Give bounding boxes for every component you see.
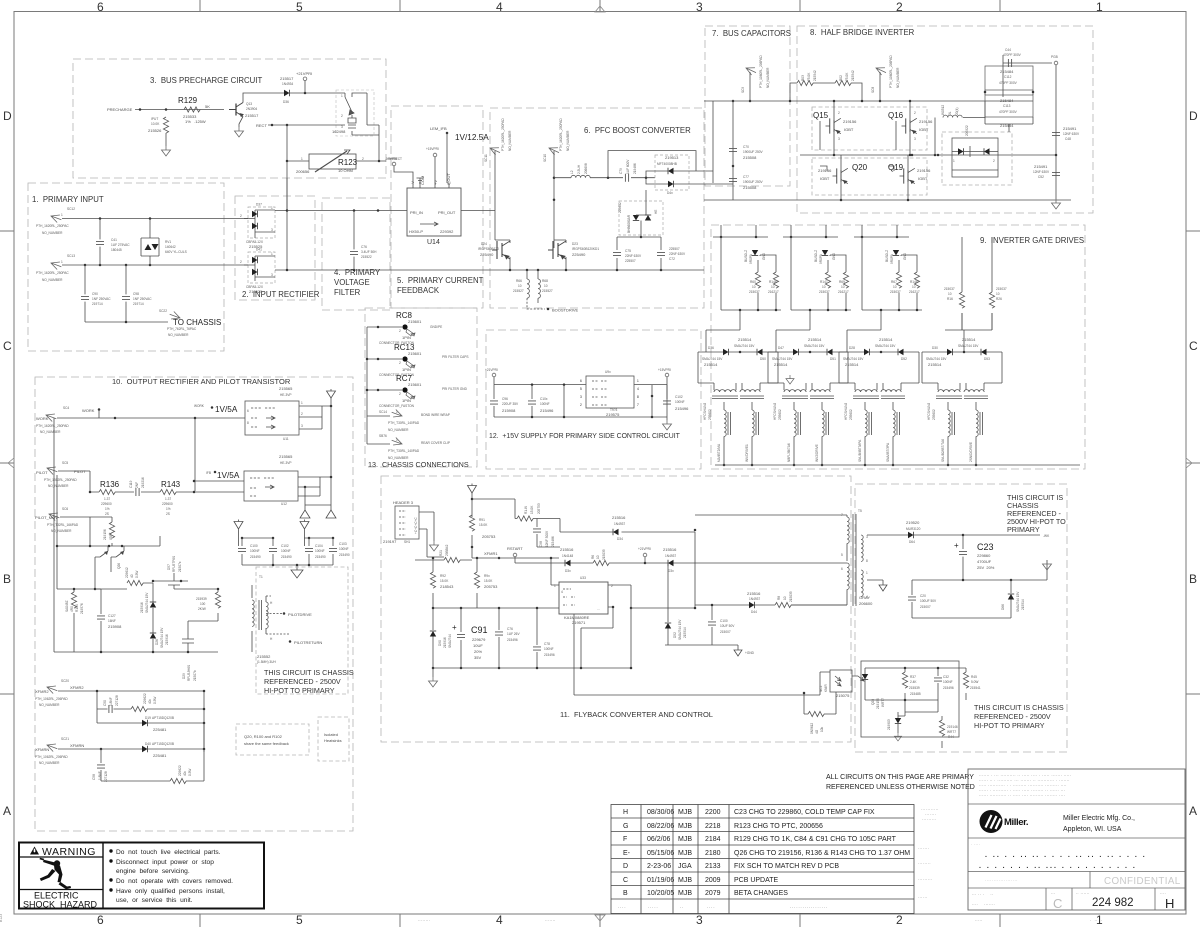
svg-text:6: 6 (841, 567, 843, 571)
svg-text:2: 2 (896, 0, 903, 14)
inductor W0512 (935, 101, 985, 155)
svg-text:IPUT: IPUT (151, 117, 158, 121)
svg-text:215527: 215527 (542, 289, 553, 293)
svg-text:640V YL-CULS: 640V YL-CULS (165, 250, 187, 254)
revision table (611, 805, 939, 914)
IGBT Q24 (492, 241, 510, 259)
svg-text:229679: 229679 (472, 637, 486, 642)
resistor R93 (476, 558, 478, 608)
svg-text:2NF: 2NF (135, 482, 139, 488)
wire header (419, 512, 444, 557)
svg-text:2009: 2009 (705, 877, 721, 884)
svg-text:ALL CIRCUITS ON THIS PAGE ARE: ALL CIRCUITS ON THIS PAGE ARE PRIMARY (826, 774, 974, 781)
svg-text:D66: D66 (1001, 604, 1005, 610)
svg-text:3L: 3L (948, 111, 952, 115)
svg-text:1PIN: 1PIN (402, 367, 411, 372)
svg-text:216217: 216217 (838, 290, 849, 294)
svg-text:INV2/DRIVE: INV2/DRIVE (815, 444, 819, 462)
zener pair 215514 SMAJ744 (768, 352, 848, 370)
svg-text:100NF: 100NF (315, 549, 325, 553)
svg-text:8: 8 (637, 395, 639, 399)
svg-text:219216: 219216 (141, 477, 145, 488)
svg-text:...... ........... .. ..... ..: ...... ........... .. ..... .... .......… (979, 793, 1065, 797)
svg-text:215496: 215496 (943, 686, 954, 690)
svg-text:SMAJ744 15V: SMAJ744 15V (160, 627, 164, 648)
svg-text:SC11: SC11 (484, 154, 488, 162)
svg-text:JGA: JGA (678, 863, 692, 870)
svg-text:REFERENCED - 2500V: REFERENCED - 2500V (264, 677, 341, 686)
svg-text:3: 3 (271, 228, 273, 232)
svg-text:8: 8 (247, 421, 249, 425)
svg-text:12. +15V SUPPLY FOR PRIMARY S: 12. +15V SUPPLY FOR PRIMARY SIDE CONTROL… (489, 433, 681, 440)
svg-text:215552: 215552 (257, 654, 271, 659)
svg-text:C127: C127 (108, 614, 116, 618)
phase node wires (800, 101, 1056, 200)
svg-text:6: 6 (97, 913, 104, 927)
svg-text:.... .......: .... ....... (972, 902, 995, 906)
svg-text:D37: D37 (256, 203, 262, 207)
svg-text:10k: 10k (820, 726, 824, 732)
shock hazard figure (40, 858, 72, 889)
svg-text:4: 4 (496, 913, 503, 927)
wire L2 (62, 264, 248, 266)
svg-text:215939: 215939 (196, 597, 207, 601)
svg-text:SC9: SC9 (741, 87, 745, 93)
svg-text:215514: 215514 (845, 362, 859, 367)
svg-text:R02: R02 (839, 75, 843, 81)
diode (958, 148, 964, 154)
svg-text:100NF: 100NF (281, 549, 291, 553)
svg-text:219520: 219520 (906, 520, 920, 525)
svg-text:RV1: RV1 (165, 240, 171, 244)
wires sensor2 out (298, 477, 331, 510)
wire collector (243, 93, 284, 103)
svg-text:215565: 215565 (279, 386, 293, 391)
dotted legal text (979, 773, 1072, 797)
svg-text:+15VPRI: +15VPRI (426, 147, 439, 151)
svg-text:1% .125W: 1% .125W (185, 119, 206, 124)
coupling transformer T2 (698, 370, 778, 383)
svg-text:PILOTRETURN: PILOTRETURN (294, 640, 322, 645)
svg-text:T1: T1 (259, 575, 263, 579)
svg-text:206922: 206922 (965, 125, 969, 136)
resistor R37 (904, 668, 906, 712)
svg-text:D36: D36 (708, 346, 714, 350)
svg-text:215539: 215539 (909, 686, 920, 690)
svg-text:Q26 CHG TO 219156, R136 & R143: Q26 CHG TO 219156, R136 & R143 CHG TO 1.… (734, 850, 910, 857)
svg-text:THIS CIRCUIT IS CHASSIS: THIS CIRCUIT IS CHASSIS (264, 668, 354, 677)
svg-text:.. ......: .. ...... (1076, 891, 1090, 895)
svg-text:12NF 630V: 12NF 630V (1033, 170, 1050, 174)
svg-text:1UF 600V: 1UF 600V (626, 159, 630, 174)
svg-text:D47: D47 (778, 346, 784, 350)
svg-text:215496: 215496 (507, 638, 518, 642)
svg-text:235602: 235602 (849, 409, 853, 420)
zener pair 215514 SMAJ744 (698, 352, 778, 370)
resistor R123 PTC 200656 (309, 150, 356, 172)
svg-text:215496: 215496 (540, 408, 554, 413)
resistor R92 (432, 558, 434, 608)
svg-text:2: 2 (240, 214, 242, 218)
capacitor C100 (241, 538, 243, 565)
svg-text:100NF: 100NF (339, 547, 349, 551)
svg-text:W0512: W0512 (941, 105, 945, 115)
svg-text:PTH_1062RL_206PAD: PTH_1062RL_206PAD (35, 755, 68, 759)
svg-text:R146: R146 (769, 280, 777, 284)
resistor R102 (101, 749, 204, 781)
wire (494, 151, 496, 240)
svg-text:.......: ....... (925, 812, 937, 816)
svg-text:215516: 215516 (612, 515, 626, 520)
svg-text:PTH_1620RL_250PAD: PTH_1620RL_250PAD (559, 118, 563, 151)
svg-text:BHB6080AR: BHB6080AR (627, 214, 631, 233)
svg-text:D51: D51 (830, 357, 836, 361)
svg-text:B: B (1189, 572, 1197, 586)
svg-text:D52: D52 (901, 357, 907, 361)
svg-text:D30: D30 (932, 346, 938, 350)
connector TO CHASSIS (168, 310, 181, 321)
node PILOTRETURN (289, 640, 292, 643)
svg-text:15.0K: 15.0K (440, 579, 449, 583)
svg-text:. . . . . . . .. ... . . . . .: . . . . . . . .. ... . . . . . . . . . . (979, 863, 1137, 870)
ground (786, 375, 794, 384)
svg-text:Miller Electric Mfg. Co.,: Miller Electric Mfg. Co., (1063, 815, 1135, 822)
rectifier module D37 (248, 207, 275, 238)
svg-text:2: 2 (362, 157, 364, 161)
svg-text:PCB UPDATE: PCB UPDATE (734, 877, 779, 884)
wire (713, 72, 750, 200)
svg-text:MJB: MJB (678, 836, 692, 843)
svg-text:1: 1 (61, 260, 63, 264)
svg-text:1UF 275VAC: 1UF 275VAC (111, 243, 130, 247)
svg-text:Q26: Q26 (117, 563, 121, 569)
svg-text:R16: R16 (947, 297, 953, 301)
svg-text:......: ...... (918, 895, 928, 899)
svg-text:HI-POT TO PRIMARY: HI-POT TO PRIMARY (974, 721, 1045, 730)
capacitor C98 (125, 265, 127, 322)
top rail (854, 225, 909, 237)
svg-text:10: 10 (752, 285, 756, 289)
capacitor C75 (616, 237, 618, 270)
diode D28 (893, 250, 899, 256)
svg-text:CONNECTOR_FASTON: CONNECTOR_FASTON (379, 404, 415, 408)
svg-text:4G: 4G (815, 729, 819, 734)
svg-text:3. BUS PRECHARGE CIRCUIT: 3. BUS PRECHARGE CIRCUIT (150, 76, 262, 85)
svg-text:FIX SCH TO MATCH REV D PCB: FIX SCH TO MATCH REV D PCB (734, 863, 839, 870)
svg-text:1V/5A: 1V/5A (215, 405, 238, 414)
svg-text:215508: 215508 (743, 155, 757, 160)
svg-text:215514: 215514 (928, 362, 942, 367)
bottom rail section 9 (715, 464, 1080, 466)
svg-text:215037: 215037 (749, 290, 760, 294)
svg-text:PRI_OUT: PRI_OUT (438, 210, 456, 215)
wire RECT (268, 124, 345, 126)
svg-text:100: 100 (200, 602, 206, 606)
svg-text:229612: 229612 (125, 567, 129, 578)
ground (235, 127, 244, 137)
svg-text:100NF: 100NF (943, 680, 953, 684)
svg-text:219513: 219513 (665, 155, 679, 160)
svg-text:R104: R104 (75, 604, 79, 612)
svg-text:1.37: 1.37 (104, 497, 110, 501)
svg-text:215037: 215037 (890, 290, 901, 294)
svg-text:...: ... (597, 607, 600, 611)
svg-text:219156: 219156 (843, 119, 857, 124)
capacitor C119 (136, 488, 139, 496)
svg-text:XFMRN: XFMRN (70, 743, 84, 748)
svg-text:HE-3VP: HE-3VP (280, 393, 292, 397)
svg-text:FEEDBACK: FEEDBACK (397, 286, 440, 295)
mosfet D29 (174, 589, 218, 652)
diode (633, 215, 639, 221)
svg-text:215514: 215514 (683, 627, 687, 638)
svg-text:10: 10 (912, 285, 916, 289)
wire opto (820, 672, 858, 676)
svg-text:PTH_T30RL_140PAD: PTH_T30RL_140PAD (388, 449, 420, 453)
junction (139, 108, 142, 111)
svg-text:1V/12.5A: 1V/12.5A (455, 133, 489, 142)
opto coupler NC2 (830, 670, 852, 692)
svg-text:+V: +V (433, 180, 438, 185)
capacitor module C112 (985, 66, 1033, 90)
wire (394, 166, 424, 188)
svg-text:Do not touch live electric: Do not touch live electrical parts. (116, 849, 221, 856)
svg-text:216217: 216217 (909, 290, 920, 294)
section 1 box: PRIMARY INPUT (28, 183, 224, 351)
capacitor C98 (537, 519, 560, 548)
svg-text:215037: 215037 (944, 287, 955, 291)
svg-text:2N3904: 2N3904 (246, 107, 257, 111)
warning bullets (109, 849, 233, 904)
svg-text:D3x: D3x (565, 569, 571, 573)
note above revision table (826, 774, 975, 791)
svg-text:225490: 225490 (480, 252, 494, 257)
svg-text:3: 3 (866, 535, 868, 539)
ground (894, 733, 901, 741)
svg-text:235602: 235602 (708, 409, 712, 420)
arrow up (234, 520, 243, 539)
chassis referenced sub box (256, 567, 348, 694)
svg-text:1N4937: 1N4937 (665, 554, 676, 558)
snubber module 225612 (619, 201, 663, 235)
arrow up (300, 520, 309, 539)
svg-text:215490: 215490 (339, 553, 350, 557)
svg-text:HFCSHUNJ: HFCSHUNJ (927, 402, 931, 420)
svg-text:215516: 215516 (747, 591, 761, 596)
svg-text:Q20, R100 and R102: Q20, R100 and R102 (244, 734, 283, 739)
svg-text:...........: ........... (921, 807, 939, 811)
svg-text:Q16: Q16 (888, 111, 904, 120)
varistor RV1 (141, 219, 159, 266)
svg-text:MJB: MJB (678, 809, 692, 816)
wire I_OUT (447, 133, 449, 188)
svg-text:BUS0LZ: BUS0LZ (885, 250, 889, 262)
svg-text:PTH_T30RL_140PAD: PTH_T30RL_140PAD (388, 421, 420, 425)
capacitor C96 (493, 385, 495, 417)
diode (984, 148, 990, 154)
svg-text:10: 10 (996, 292, 1000, 296)
svg-text:9. INVERTER GATE DRIVES: 9. INVERTER GATE DRIVES (980, 236, 1084, 245)
svg-text:A: A (1189, 804, 1197, 818)
svg-text:C: C (623, 877, 628, 884)
svg-text:1NF 250VAC: 1NF 250VAC (133, 297, 152, 301)
svg-text:NO_NUMBER: NO_NUMBER (42, 231, 63, 235)
svg-text:D44: D44 (751, 610, 757, 614)
rail (239, 538, 334, 546)
svg-text:R67: R67 (891, 280, 897, 284)
svg-text:PTH_1620RL_250PAD: PTH_1620RL_250PAD (501, 118, 505, 151)
diode (252, 211, 258, 217)
capacitor C32 (937, 668, 939, 700)
svg-text:........: ........ (418, 918, 430, 922)
wire (617, 190, 648, 237)
svg-text:215517: 215517 (245, 113, 259, 118)
svg-text:C20: C20 (920, 594, 926, 598)
svg-text:WRT7: WRT7 (947, 730, 956, 734)
svg-text:4: 4 (496, 0, 503, 14)
svg-text:215484: 215484 (1000, 69, 1014, 74)
svg-text:R92: R92 (440, 574, 446, 578)
svg-text:CONFIDENTIAL: CONFIDENTIAL (1104, 876, 1181, 887)
zener D90 SMAJ744 (432, 608, 434, 668)
svg-text:REFERENCED UNLESS OTHERWISE NO: REFERENCED UNLESS OTHERWISE NOTED (826, 784, 975, 791)
wire (356, 125, 386, 161)
svg-text:215517: 215517 (280, 76, 294, 81)
svg-text:NO_NUMBER: NO_NUMBER (48, 484, 69, 488)
svg-text:2: 2 (399, 361, 401, 365)
svg-text:.....: ..... (975, 918, 983, 922)
svg-text:2079: 2079 (705, 890, 721, 897)
svg-text:C: C (1189, 339, 1198, 353)
svg-text:215514: 215514 (774, 362, 788, 367)
svg-text:R129: R129 (178, 96, 198, 105)
svg-text:6. PFC BOOST CONVERTER: 6. PFC BOOST CONVERTER (584, 126, 691, 135)
ground small (734, 650, 742, 656)
svg-text:20%: 20% (474, 649, 482, 654)
connector XFMRN SC21 (46, 741, 59, 752)
svg-text:100NF: 100NF (544, 647, 554, 651)
svg-text:.......: ....... (545, 918, 556, 922)
diode (668, 168, 674, 174)
svg-text:4700UF: 4700UF (977, 559, 992, 564)
svg-text:.....: ..... (648, 904, 659, 909)
svg-text:3: 3 (580, 395, 582, 399)
diode D36 1N4934 (284, 90, 290, 96)
svg-text:D90: D90 (438, 640, 442, 646)
svg-text:05/15/06: 05/15/06 (647, 850, 674, 857)
svg-text:215490: 215490 (315, 555, 326, 559)
capacitor C100f (711, 605, 713, 645)
svg-text:20(4): 20(4) (955, 108, 959, 115)
svg-text:215916: 215916 (165, 634, 169, 645)
svg-text:15.0K: 15.0K (484, 579, 493, 583)
svg-text:12NF 300V: 12NF 300V (545, 530, 549, 547)
svg-text:C52: C52 (1038, 175, 1044, 179)
bottom rail (847, 237, 922, 352)
svg-text:E-: E- (623, 850, 631, 857)
winding R66 (526, 270, 528, 279)
zener D66 (1010, 580, 1012, 618)
svg-text:U14: U14 (427, 239, 440, 246)
svg-text:NO_NUMBER: NO_NUMBER (168, 333, 189, 337)
svg-text:5K: 5K (205, 104, 210, 109)
wire rectifier plus bus (275, 178, 490, 270)
svg-text:C48: C48 (1065, 137, 1071, 141)
svg-text:1: 1 (866, 571, 868, 575)
svg-text:RFU5TF6S: RFU5TF6S (172, 556, 176, 572)
svg-text:C90: C90 (92, 292, 98, 296)
svg-text:8. HALF BRIDGE INVERTER: 8. HALF BRIDGE INVERTER (810, 28, 915, 37)
svg-text:SA048Z: SA048Z (65, 600, 69, 612)
section 13 box: CHASSIS CONNECTIONS (365, 308, 477, 469)
svg-text:PILOT: PILOT (74, 469, 86, 474)
connector PILOT_MOV SC6 (48, 510, 61, 521)
svg-text:C23: C23 (977, 542, 994, 552)
svg-text:15.0K: 15.0K (479, 523, 488, 527)
gate drive group 4 (922, 313, 1002, 466)
diode D35 1N4148 (565, 560, 571, 566)
svg-text:SC8: SC8 (871, 87, 875, 93)
svg-text:.........: ......... (922, 817, 937, 821)
svg-text:D50: D50 (760, 357, 766, 361)
svg-text:PTH_1620RL_250PAC: PTH_1620RL_250PAC (36, 224, 69, 228)
svg-text:215542: 215542 (813, 70, 817, 81)
svg-text:+21VPRI: +21VPRI (296, 71, 312, 76)
svg-text:10: 10 (544, 284, 548, 288)
svg-text:218543: 218543 (440, 584, 454, 589)
svg-text:9R0PA: 9R0PA (749, 253, 753, 264)
svg-text:10UF: 10UF (473, 643, 483, 648)
svg-text:219575: 219575 (606, 412, 620, 417)
svg-text:PRIMARY: PRIMARY (1007, 525, 1040, 534)
svg-text:470PF 300V: 470PF 300V (999, 81, 1018, 85)
inductor L2 (554, 177, 608, 179)
wire L1 (62, 218, 248, 220)
gate drive group 2 (768, 225, 851, 466)
emitter bus (490, 269, 704, 271)
resistor R60 (757, 260, 759, 310)
svg-text:5. PRIMARY CURRENT: 5. PRIMARY CURRENT (397, 276, 484, 285)
svg-text:2: 2 (838, 111, 840, 115)
ground (432, 668, 434, 677)
svg-text:219903: 219903 (887, 719, 891, 730)
svg-text:215035: 215035 (602, 549, 606, 560)
svg-text:Q15: Q15 (813, 111, 829, 120)
svg-text:C10x: C10x (540, 397, 548, 401)
svg-text:PILOTDRIVE: PILOTDRIVE (288, 612, 312, 617)
svg-text:R37: R37 (910, 675, 916, 679)
svg-text:SMAJ744 15V: SMAJ744 15V (1016, 591, 1020, 612)
svg-text:10: 10 (822, 285, 826, 289)
svg-text:HFCSHUNJ: HFCSHUNJ (703, 402, 707, 420)
resistor R90 (517, 516, 533, 521)
svg-text:224 982: 224 982 (1092, 897, 1134, 909)
svg-text:SNA/IBT/3PA: SNA/IBT/3PA (886, 442, 890, 462)
svg-text:1PIN: 1PIN (402, 335, 411, 340)
svg-text:SC22: SC22 (159, 309, 167, 313)
wire (165, 133, 167, 146)
svg-text:GND: GND (903, 252, 907, 260)
svg-text:215484: 215484 (1000, 98, 1014, 103)
resistor R91 (471, 493, 473, 558)
svg-text:APT15DQ120B: APT15DQ120B (152, 716, 174, 720)
svg-text:C50: C50 (103, 700, 107, 706)
svg-text:SMAJ744: SMAJ744 (448, 634, 452, 648)
svg-text:....: .... (1160, 891, 1166, 895)
svg-text:2200: 2200 (705, 809, 721, 816)
coupling transformer T3 (768, 370, 848, 383)
svg-text:3: 3 (914, 137, 916, 141)
